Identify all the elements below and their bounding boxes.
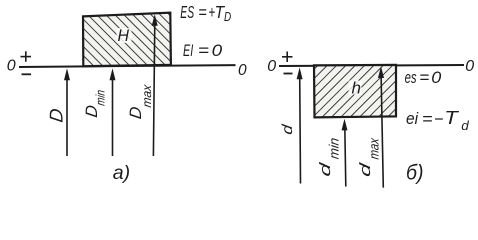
svg-text:а): а) <box>113 162 130 184</box>
svg-text:ES: ES <box>180 2 194 22</box>
svg-text:dmin: dmin <box>317 135 341 178</box>
svg-text:H: H <box>118 27 130 45</box>
svg-text:=: = <box>198 2 207 22</box>
svg-text:D: D <box>45 107 66 123</box>
svg-text:−: − <box>434 110 444 128</box>
tolerance zone h (hatched) <box>314 65 396 118</box>
svg-text:d: d <box>461 118 469 133</box>
svg-text:0: 0 <box>267 58 276 75</box>
svg-text:=: = <box>198 42 209 60</box>
svg-text:ei: ei <box>406 110 419 128</box>
svg-text:EI: EI <box>183 42 193 60</box>
svg-text:б): б) <box>406 161 424 185</box>
zero line (b) <box>279 65 464 66</box>
minus sign (a) <box>22 73 32 75</box>
svg-text:0: 0 <box>465 58 474 75</box>
dimension arrow dmax (through zone) <box>378 66 384 187</box>
halo behind h <box>349 81 362 95</box>
plus sign (a) <box>21 51 32 62</box>
plus sign (b) <box>282 52 293 63</box>
svg-text:0: 0 <box>238 62 247 79</box>
zero line (a) <box>19 65 236 67</box>
svg-text:=: = <box>419 69 429 87</box>
svg-text:=: = <box>422 110 433 128</box>
svg-text:0: 0 <box>7 58 16 75</box>
halo behind H <box>117 28 132 43</box>
svg-text:0: 0 <box>212 42 223 60</box>
dimension arrow Dmin <box>110 68 116 156</box>
label ES=+TD <box>180 2 231 24</box>
tolerance zone H (hatched) <box>83 13 171 67</box>
dimension arrow D <box>64 68 70 156</box>
svg-text:h: h <box>352 79 362 98</box>
label ei=-Td <box>406 108 470 133</box>
minus sign (b) <box>284 73 293 75</box>
dimension arrow d <box>297 67 303 183</box>
svg-text:0: 0 <box>431 69 442 87</box>
svg-text:Dmin: Dmin <box>82 87 107 119</box>
svg-text:D: D <box>224 9 231 24</box>
svg-text:Dmax: Dmax <box>126 81 154 121</box>
svg-text:es: es <box>405 69 417 87</box>
dimension arrow dmin <box>342 119 348 187</box>
svg-text:T: T <box>444 108 460 128</box>
dimension arrow Dmax <box>152 14 158 156</box>
svg-text:dmax: dmax <box>357 135 381 179</box>
label es=0 <box>405 69 443 87</box>
label EI=0 <box>183 42 223 60</box>
svg-text:d: d <box>280 123 296 136</box>
